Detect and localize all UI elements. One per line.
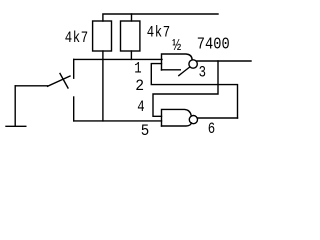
NAND gate U1b bubble (189, 116, 197, 124)
wire feedback output3 to pin4 (153, 61, 218, 116)
switch blade (48, 76, 71, 86)
wire Vcc rail (103, 14, 218, 21)
svg-text:2: 2 (135, 76, 144, 95)
wire switch pole (15, 85, 47, 87)
svg-text:6: 6 (208, 120, 215, 137)
svg-text:7400: 7400 (197, 34, 230, 54)
wire pin2 to output6 (151, 64, 237, 118)
wire left resistor bottom to lower net (102, 51, 104, 121)
svg-text:4: 4 (137, 99, 144, 117)
svg-text:½: ½ (172, 36, 181, 55)
svg-text:5: 5 (141, 121, 149, 137)
wire right resistor bottom stub (130, 51, 132, 59)
NAND gate U1a body (162, 54, 193, 70)
svg-text:4k7: 4k7 (65, 30, 89, 48)
switch blade cross stroke (60, 74, 68, 89)
wire upper net to pin 1 (74, 58, 162, 60)
resistor R1 4k7 (left) (93, 21, 112, 51)
resistor R2 4k7 (right) (121, 21, 140, 51)
wire output 3 (197, 60, 251, 62)
wire output 6 (197, 117, 237, 119)
wire switch upper contact (73, 59, 75, 78)
NAND gate U1a bubble (189, 60, 197, 68)
wire lower net to pin 5 (74, 120, 162, 122)
NAND gate U1b body (162, 109, 192, 126)
wire switch lower contact (73, 97, 75, 121)
wire right resistor top stub (131, 14, 133, 21)
svg-text:3: 3 (199, 64, 206, 82)
svg-text:4k7: 4k7 (147, 24, 171, 42)
ground (6, 86, 26, 127)
NAND gate U1a bottom tail (179, 67, 190, 76)
